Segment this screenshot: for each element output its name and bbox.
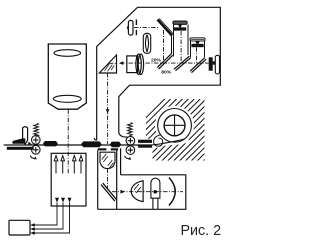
- vertical axis P2 to mirror D3: [196, 47, 198, 65]
- lamp axis horizontal: [112, 191, 183, 193]
- reflector mirror arc: [169, 178, 175, 206]
- axis segment inside prism: [109, 62, 117, 64]
- D-lens hatching: [134, 184, 141, 193]
- beam splitter D1: [157, 54, 173, 69]
- deflecting prism: [99, 55, 116, 73]
- objective barrel: [127, 54, 144, 74]
- output wires: [32, 202, 70, 233]
- film gate pad B: [110, 142, 121, 148]
- monitor channel walls: [98, 150, 117, 209]
- mirror D2: [174, 56, 191, 71]
- enclosure outline of recorder head unit: [94, 7, 220, 140]
- tension spring left: [34, 123, 39, 136]
- pinch roller R lower: [126, 146, 135, 155]
- photocell cup: [100, 152, 115, 168]
- pinch roller L upper: [32, 136, 41, 145]
- drum cross: [165, 115, 185, 135]
- axis arrow into prism: [119, 61, 123, 65]
- photodetector block: [209, 57, 213, 70]
- photocell P1 housing sides: [174, 24, 189, 56]
- vertical axis P1 to mirror D2: [180, 31, 182, 62]
- drum housing hatching: [84, 97, 267, 162]
- photocell P2 housing sides: [191, 41, 205, 57]
- svg-text:80%: 80%: [161, 69, 171, 75]
- sound drum face: [164, 115, 185, 136]
- camera tube lens top: [54, 50, 81, 57]
- film pad lower-left bar: [7, 147, 34, 150]
- film exit loop: [154, 135, 163, 147]
- axis cup to mirror: [107, 169, 109, 190]
- camera tube lens bottom: [53, 95, 81, 102]
- mirror D3: [190, 58, 206, 73]
- lamp axis arrow: [120, 190, 125, 194]
- lamp axis: [134, 26, 159, 28]
- vertical axis M0 to splitter: [163, 30, 165, 62]
- optical axis tube to film: [67, 109, 69, 174]
- film pad C upper: [138, 140, 152, 143]
- beam arrow down: [106, 109, 110, 114]
- slit diaphragm: [135, 20, 137, 36]
- film gate pad A: [81, 141, 102, 147]
- amplifier output terminals: [55, 198, 72, 203]
- tension spring: [128, 123, 133, 136]
- photocell P2 plate: [190, 38, 205, 47]
- photodetector nub: [213, 61, 216, 64]
- condenser lens in mount: [143, 33, 150, 53]
- svg-text:Рис. 2: Рис. 2: [181, 223, 222, 239]
- film base line: [4, 144, 152, 146]
- lamp filament dot: [153, 190, 157, 194]
- condenser D-lens: [131, 181, 143, 202]
- film pad mid-left: [43, 141, 58, 146]
- exciter lamp bulb: [151, 178, 160, 209]
- svg-text:20%: 20%: [151, 57, 161, 63]
- film pad C lower: [138, 145, 152, 148]
- film approach to drum: [152, 139, 185, 145]
- cup hatching: [102, 154, 114, 168]
- film pad left wedge: [13, 138, 26, 143]
- stylus side wedge: [28, 142, 32, 145]
- amplifier box: [51, 153, 86, 206]
- recording lamp: [128, 20, 133, 35]
- photodetector capsule: [215, 55, 219, 74]
- mirror M1 in channel: [101, 183, 117, 201]
- amplifier input arrows: [54, 156, 83, 174]
- pinch roller R upper: [126, 136, 135, 145]
- photocell P1 plate: [173, 21, 188, 31]
- prism hatching: [105, 64, 115, 71]
- camera tube body: [48, 44, 86, 109]
- wire arrowheads: [30, 223, 35, 235]
- recording stylus: [23, 127, 28, 145]
- vertical axis prism to film: [107, 73, 109, 144]
- mirror M0 mount line: [171, 36, 173, 55]
- fold mirror M0: [158, 18, 174, 35]
- channel top pads: [98, 148, 118, 150]
- link line to film gate: [120, 148, 122, 175]
- sound drum outer (film wrap): [158, 109, 192, 143]
- main horizontal axis: [120, 62, 209, 64]
- exciter lamp unit box: [98, 175, 186, 210]
- recorder output box: [9, 220, 30, 235]
- pinch roller L lower: [32, 146, 41, 155]
- roller L rotation arrow: [30, 156, 36, 159]
- roller R rotation arrow: [125, 156, 131, 159]
